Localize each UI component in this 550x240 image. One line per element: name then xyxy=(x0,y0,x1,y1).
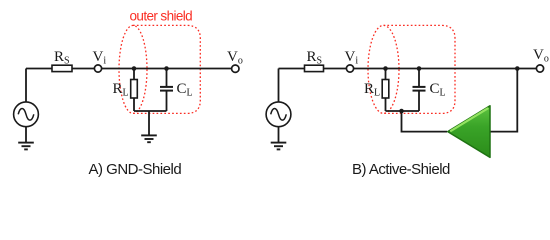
wire: left vertical to source xyxy=(278,69,280,103)
junction at RL top xyxy=(132,66,137,71)
ground (source) xyxy=(18,143,34,150)
shield end-cap ellipse (red dashed) xyxy=(368,25,399,113)
wire: left vertical to source xyxy=(25,69,27,103)
junction at CL top xyxy=(164,66,169,71)
wire: buffer input from output node xyxy=(490,69,517,132)
wire: top rail Vi to Vo xyxy=(26,68,232,70)
resistor RL xyxy=(382,80,389,99)
svg-text:B) Active-Shield: B) Active-Shield xyxy=(352,161,450,178)
ground (source) xyxy=(271,143,287,150)
node Vi xyxy=(346,65,353,72)
wire: RL to bottom rail xyxy=(133,98,135,111)
wire: bottom rail RL-CL xyxy=(134,110,167,112)
svg-text:Vo: Vo xyxy=(227,49,243,67)
source V1 (sine) xyxy=(14,102,39,127)
capacitor CL xyxy=(160,87,173,91)
capacitor CL xyxy=(413,87,426,91)
wire: CL to bottom rail xyxy=(166,92,168,112)
wire: CL to bottom rail xyxy=(418,92,420,112)
buffer amplifier U1 xyxy=(448,106,490,158)
node Vo xyxy=(536,65,543,72)
wire: junction to RL xyxy=(133,69,135,80)
junction at RL top xyxy=(383,66,388,71)
svg-text:outer shield: outer shield xyxy=(130,9,193,24)
wire: junction to CL xyxy=(166,69,168,87)
svg-text:A) GND-Shield: A) GND-Shield xyxy=(89,161,182,178)
wire: shield drive from buffer output xyxy=(402,111,448,132)
node Vo xyxy=(232,65,239,72)
resistor RS xyxy=(52,65,72,71)
wire: junction to RL xyxy=(385,69,387,80)
wire: top rail Vi to Vo xyxy=(279,68,537,70)
wire: RL to bottom rail xyxy=(385,98,387,111)
svg-text:CL: CL xyxy=(177,81,193,99)
outer shield cylinder body (red dashed) xyxy=(133,25,200,113)
svg-text:RS: RS xyxy=(307,49,323,67)
junction on bottom rail xyxy=(399,109,404,114)
wire: source to ground xyxy=(25,127,27,143)
svg-text:Vi: Vi xyxy=(93,49,107,67)
node Vi xyxy=(94,65,101,72)
resistor RS xyxy=(305,65,324,71)
resistor RL xyxy=(131,80,138,99)
wire: shield to ground xyxy=(148,111,150,135)
source V2 (sine) xyxy=(266,102,291,127)
svg-text:RL: RL xyxy=(113,81,129,99)
svg-text:RL: RL xyxy=(364,81,380,99)
wire: bottom rail RL-CL xyxy=(386,110,420,112)
shield cylinder body (red dashed) xyxy=(384,25,456,113)
junction at buffer input tap xyxy=(515,66,520,71)
ground (shield) xyxy=(141,135,157,142)
svg-text:RS: RS xyxy=(54,49,70,67)
svg-text:Vi: Vi xyxy=(345,49,359,67)
wire: junction to CL xyxy=(418,69,420,87)
junction at CL top xyxy=(417,66,422,71)
outer shield end-cap ellipse (red dashed) xyxy=(119,25,147,113)
wire: source to ground xyxy=(278,127,280,143)
svg-text:Vo: Vo xyxy=(533,47,549,65)
svg-text:CL: CL xyxy=(430,81,446,99)
